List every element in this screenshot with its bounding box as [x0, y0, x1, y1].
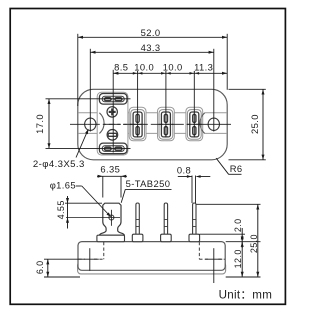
dimension row 8.5 / 10.0 / 10.0 / 11.3 [113, 72, 227, 74]
dimension 25.0 body depth [262, 89, 264, 160]
extension line screw column [112, 70, 114, 153]
leader line to faston blade [121, 189, 125, 202]
svg-text:2-φ4.3X5.3: 2-φ4.3X5.3 [33, 159, 85, 170]
side view: pin 3 pedestal [189, 234, 200, 242]
svg-text:25.0: 25.0 [249, 234, 259, 253]
dimension 4.55 hole position [67, 196, 69, 229]
side view: left hole centerline cross [89, 248, 91, 271]
top view: horizontal centerline [70, 123, 88, 125]
dimension 0.8 pin thickness [191, 176, 193, 204]
top view: collar cavity around middle tab 2 [158, 107, 175, 141]
svg-text:2.0: 2.0 [233, 218, 243, 232]
side view: faston pedestal [97, 235, 125, 242]
leader line to body corner [216, 158, 228, 174]
side view: right hole centerline cross [213, 248, 215, 283]
side view: case body [78, 242, 225, 271]
top view: slotted terminal [107, 130, 118, 141]
svg-text:8.5: 8.5 [114, 61, 128, 72]
svg-text:6.35: 6.35 [100, 164, 120, 175]
dimension 17.0 tab pitch [48, 99, 50, 149]
dimension 2.0 pedestal height [241, 228, 243, 248]
dimension 25.0 overall height [257, 204, 259, 277]
top view: left mounting hole 4.3x5.3 [85, 118, 96, 130]
dimension 6.0 hole center height [47, 259, 49, 277]
side view: hidden boss outline right (dashed) [198, 242, 200, 259]
extension line middle tab 2 [165, 76, 167, 138]
svg-text:43.3: 43.3 [141, 42, 161, 53]
svg-text:φ1.65: φ1.65 [50, 180, 76, 191]
top view: middle tab terminal 1 opening [131, 110, 145, 140]
extension line left hole center [89, 49, 91, 132]
extension line body bottom edge [229, 159, 266, 161]
svg-text:25.0: 25.0 [249, 114, 260, 134]
top view: phillips screw head [107, 107, 117, 117]
side view: pin 2 [164, 203, 167, 234]
side view: faston hole dia 1.65 [109, 215, 114, 220]
svg-text:0.8: 0.8 [177, 164, 191, 175]
top view: cavity edge lines [79, 112, 100, 114]
svg-text:R6: R6 [230, 163, 243, 174]
top view: middle tab terminal 1 blade [133, 112, 142, 137]
extension line middle tab 3 [193, 76, 195, 138]
extension line body top edge [229, 88, 266, 90]
side view: pin 3 [193, 203, 196, 234]
svg-text:Unit：mm: Unit：mm [219, 289, 273, 302]
top view: middle tab terminal 3 opening [187, 110, 201, 140]
svg-text:10.0: 10.0 [163, 61, 183, 72]
dimension 43.3 hole pitch [90, 51, 214, 53]
side view: pin 1 [136, 203, 139, 234]
svg-text:11.3: 11.3 [194, 61, 213, 72]
svg-text:12.0: 12.0 [233, 249, 243, 268]
top view: middle tab terminal 2 blade [161, 112, 170, 137]
top view: middle tab terminal 2 opening [159, 110, 173, 140]
dimension 12.0 case height [241, 242, 243, 277]
top view: collar cavity around middle tab 3 [186, 107, 203, 141]
side view: pin 1 pedestal [132, 234, 143, 242]
extension line upper tab center [46, 98, 131, 100]
extension line left body edge [77, 34, 79, 106]
extension line right hole center [213, 49, 215, 132]
svg-text:10.0: 10.0 [134, 61, 154, 72]
side view: pin 2 pedestal [161, 234, 172, 242]
extension line right body edge [226, 34, 228, 90]
top view: lower left tab terminal [99, 143, 127, 154]
top view: left terminal cluster cavity box [97, 92, 128, 155]
side view: faston hole centerlines [66, 217, 120, 219]
side view: faston tab terminal TAB250 [100, 203, 125, 235]
top view: middle tab terminal 3 blade [190, 112, 199, 137]
top view: right mounting boss arc [200, 113, 205, 134]
svg-text:4.55: 4.55 [56, 200, 66, 219]
top view: collar cavity around middle tab 1 [129, 107, 146, 141]
svg-text:17.0: 17.0 [34, 114, 45, 134]
top view: upper left tab terminal [99, 94, 127, 105]
side view: hidden boss outline left (dashed) [103, 242, 105, 259]
extension line middle tab 1 [137, 76, 139, 138]
leader line to left mounting hole [76, 130, 88, 157]
dimension 6.35 tab width [97, 175, 127, 177]
top view: module body outline [78, 89, 227, 160]
leader line to faston hole [76, 185, 82, 187]
svg-text:52.0: 52.0 [141, 27, 161, 38]
svg-text:6.0: 6.0 [35, 260, 45, 274]
top view: left mounting boss arc [99, 113, 104, 134]
svg-text:5-TAB250: 5-TAB250 [126, 178, 171, 189]
extension line lower tab center [46, 147, 131, 149]
top view: right mounting hole 4.3x5.3 [208, 118, 219, 130]
side view: baseplate [78, 262, 226, 274]
dimension 52.0 overall width [78, 36, 227, 38]
